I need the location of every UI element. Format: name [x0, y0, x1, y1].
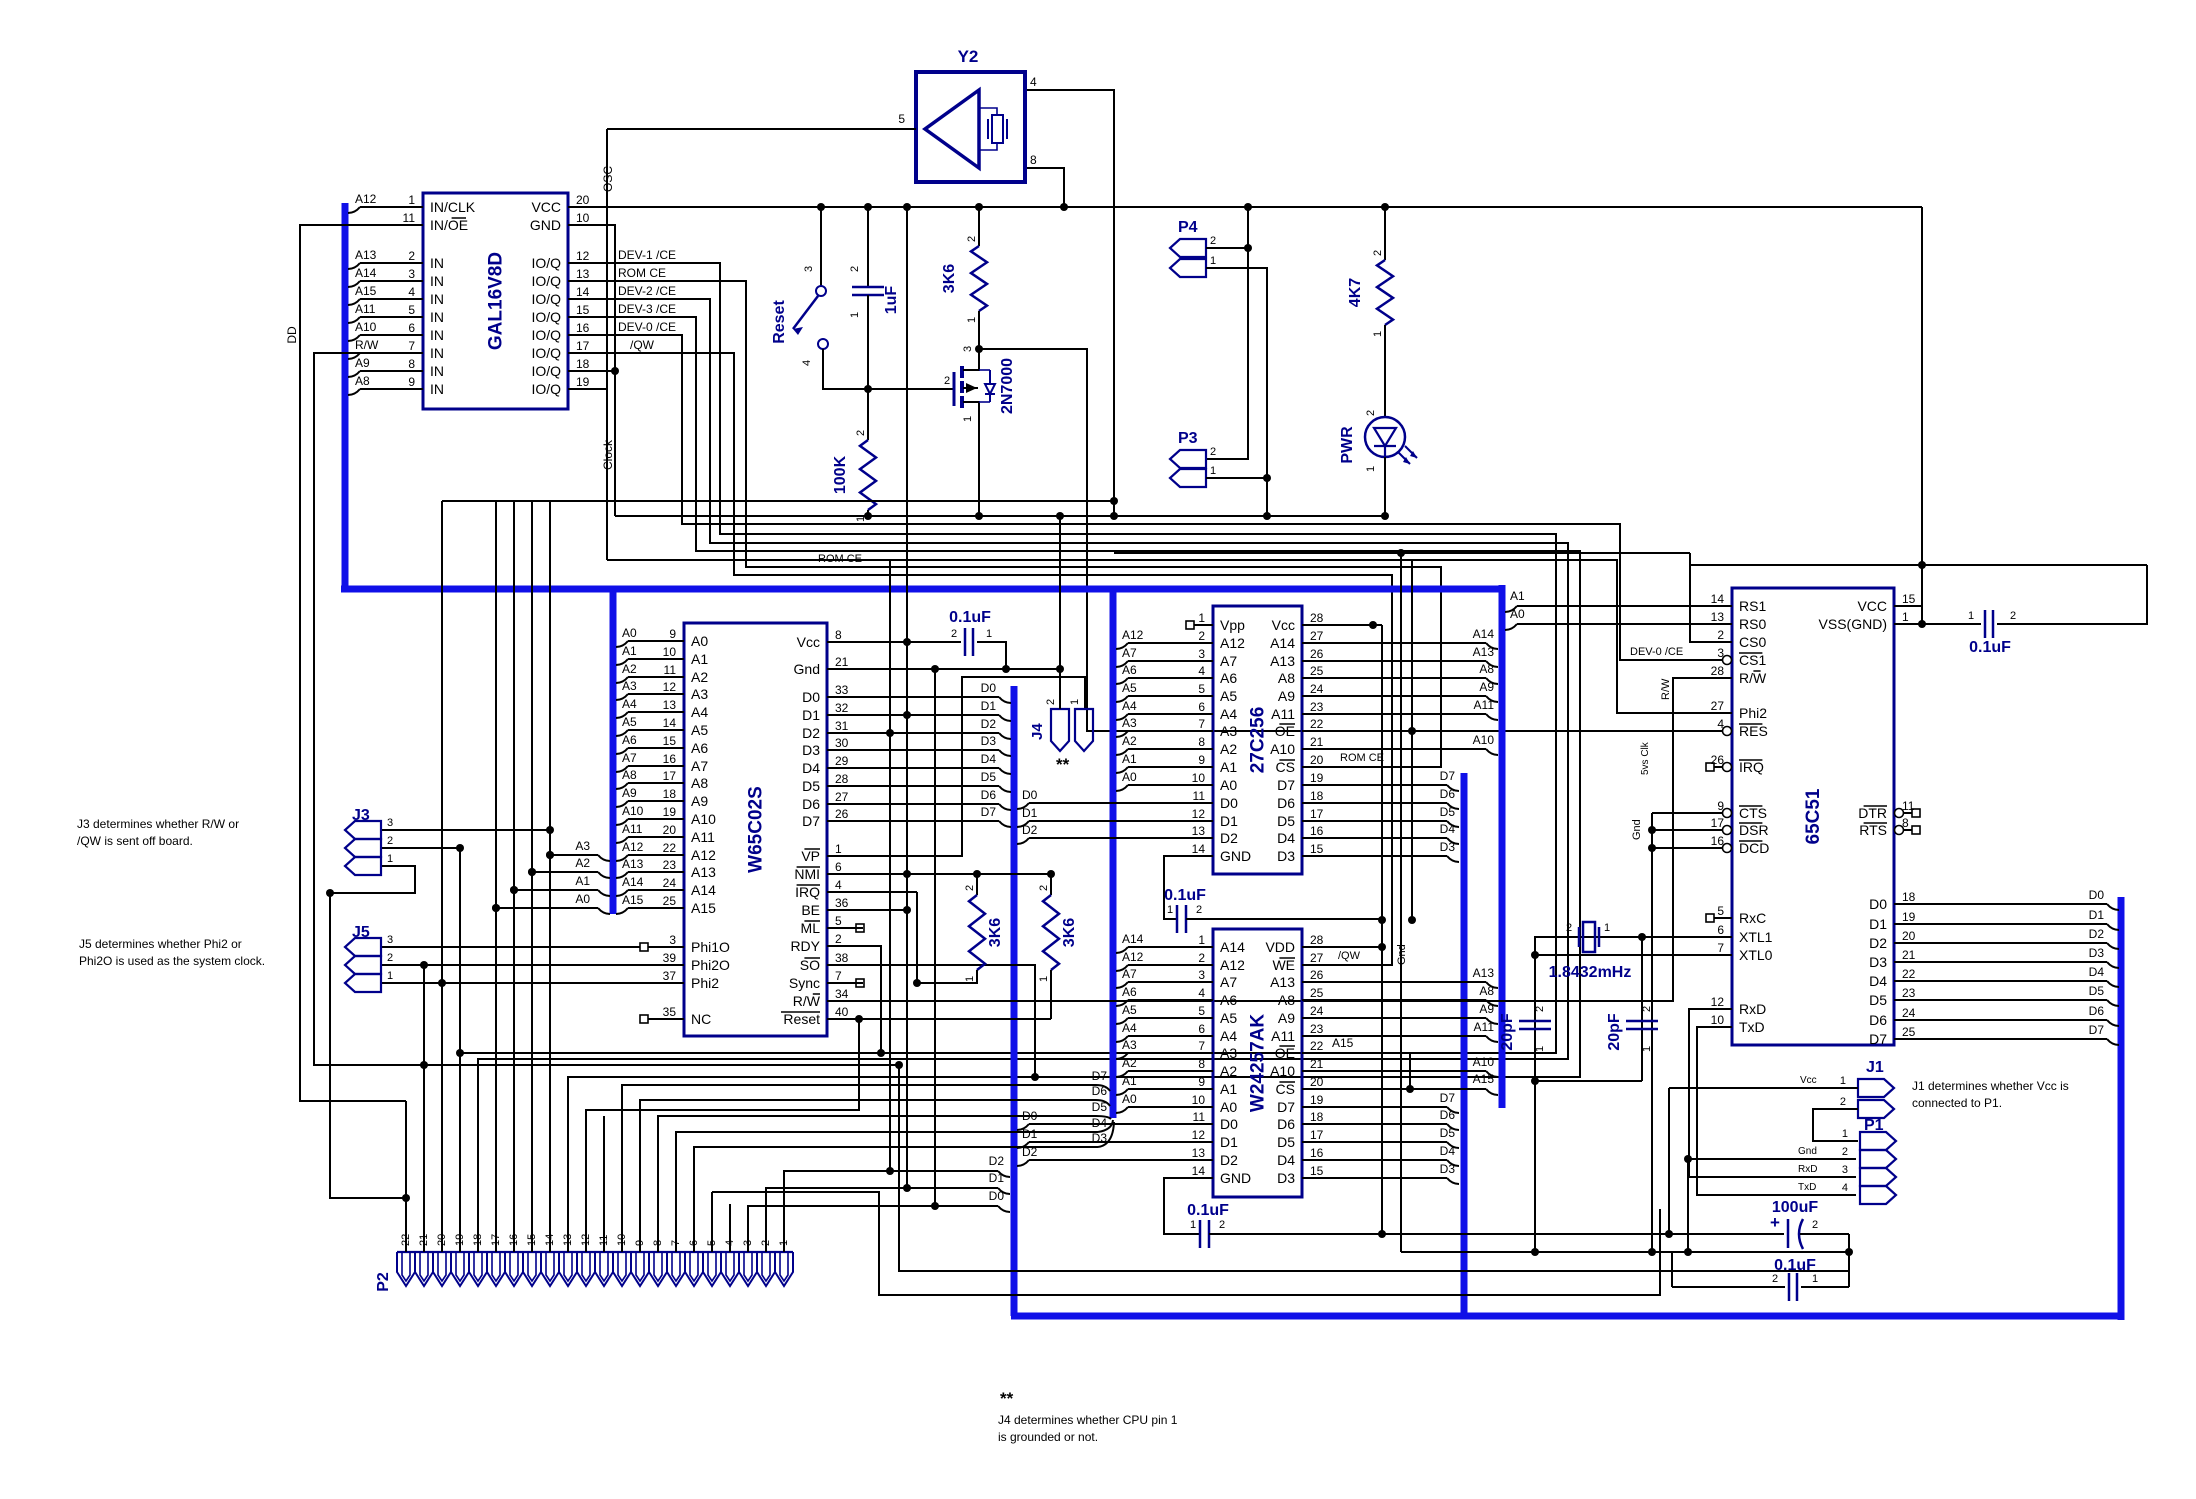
svg-text:100K: 100K	[832, 455, 849, 494]
wire P4 pin2	[1206, 247, 1248, 249]
svg-text:1: 1	[1038, 976, 1050, 982]
svg-text:A8: A8	[1278, 992, 1295, 1008]
P2 pin 11	[595, 1252, 613, 1286]
pin 16 DCD	[1714, 847, 1732, 849]
wire D1 ROM	[1017, 821, 1029, 827]
svg-text:D6: D6	[1440, 787, 1456, 801]
wire A8 ROM right	[1321, 677, 1486, 679]
svg-text:23: 23	[1310, 700, 1324, 714]
wire Clock run to right	[607, 560, 1714, 713]
wire bottom long A	[712, 1192, 1660, 1295]
svg-text:D2: D2	[989, 1154, 1005, 1168]
pin 1 VP	[827, 855, 863, 857]
svg-text:2: 2	[1772, 1273, 1778, 1285]
svg-text:6: 6	[1198, 1022, 1205, 1036]
svg-text:3K6: 3K6	[1061, 918, 1078, 947]
svg-text:A12: A12	[1122, 628, 1144, 642]
wire riser P2 pin7 D4	[676, 1132, 1098, 1252]
svg-text:D3: D3	[1277, 848, 1295, 864]
svg-text:DTR: DTR	[1858, 805, 1887, 821]
svg-text:15: 15	[663, 734, 677, 748]
pin 13 RS0	[1714, 623, 1732, 625]
svg-text:2: 2	[1198, 951, 1205, 965]
svg-text:9: 9	[669, 627, 676, 641]
svg-text:D5: D5	[1869, 992, 1887, 1008]
svg-text:D4: D4	[1277, 830, 1295, 846]
svg-text:11: 11	[1193, 1110, 1206, 1124]
pin 30 D3	[827, 749, 863, 751]
pin 38 SO	[827, 964, 863, 966]
pin 19 IO/Q	[568, 388, 604, 390]
wire A15 to GAL	[348, 299, 360, 305]
pin 6 NMI	[827, 873, 863, 875]
pin 27 D6	[827, 803, 863, 805]
pin 7 A3	[1194, 1052, 1213, 1054]
svg-text:16: 16	[1310, 824, 1324, 838]
capacitor 0.1uF CPU	[845, 641, 961, 643]
pin 3 CS1	[1714, 659, 1732, 661]
RAM VDD wire	[1321, 946, 1382, 948]
pin 25 A8	[1302, 677, 1321, 679]
svg-text:DCD: DCD	[1739, 840, 1769, 856]
svg-text:D6: D6	[1092, 1084, 1108, 1098]
svg-text:ROM CE: ROM CE	[818, 553, 862, 565]
wire A6 ROM	[1116, 678, 1128, 684]
svg-text:D1: D1	[1220, 1134, 1238, 1150]
svg-text:1: 1	[1534, 1046, 1546, 1052]
svg-text:A14: A14	[622, 875, 644, 889]
svg-text:A2: A2	[1122, 734, 1137, 748]
pin 40 Reset	[827, 1018, 863, 1020]
wire P1 pin2 Gnd	[1688, 1158, 1856, 1160]
pin 2 CS0	[1714, 641, 1732, 643]
svg-text:A3: A3	[1220, 1045, 1237, 1061]
pin 18 D6	[1302, 802, 1321, 804]
svg-text:A2: A2	[622, 662, 637, 676]
pin 5 IN	[387, 316, 423, 318]
wire D6 RAM data	[1321, 1123, 1447, 1125]
svg-text:9: 9	[1198, 753, 1205, 767]
pin 18 A9	[648, 800, 684, 802]
svg-text:D7: D7	[1440, 1091, 1456, 1105]
P2 pin 18	[469, 1252, 487, 1286]
svg-text:D7: D7	[1092, 1069, 1108, 1083]
svg-text:17: 17	[1711, 816, 1725, 830]
svg-text:GND: GND	[530, 217, 561, 233]
svg-text:OE: OE	[1275, 1045, 1295, 1061]
svg-text:A13: A13	[355, 248, 377, 262]
wire y501 horizontal	[442, 500, 1114, 502]
wire riser P2 pin15 A2	[531, 866, 533, 1252]
svg-text:6: 6	[1717, 923, 1724, 937]
wire J5 pin1 to Phi2	[382, 982, 648, 984]
pin 12 D1	[1194, 820, 1213, 822]
svg-text:A7: A7	[1122, 967, 1137, 981]
svg-text:21: 21	[1902, 948, 1916, 962]
svg-text:A14: A14	[1220, 939, 1245, 955]
svg-text:22: 22	[1902, 967, 1916, 981]
svg-text:A12: A12	[622, 840, 644, 854]
wire Reset CPU	[845, 1018, 1051, 1020]
pin 5 A5	[1194, 695, 1213, 697]
wire ROM OE	[1321, 730, 1412, 732]
svg-text:D6: D6	[1277, 1116, 1295, 1132]
svg-text:D6: D6	[2089, 1004, 2105, 1018]
switch Reset	[820, 207, 822, 286]
svg-text:2: 2	[1840, 1096, 1846, 1108]
svg-text:16: 16	[1711, 834, 1725, 848]
svg-text:A7: A7	[1220, 974, 1237, 990]
svg-text:A5: A5	[691, 722, 708, 738]
wire VSS 65C51 + capacitor 0.1uF right	[1894, 623, 1981, 625]
svg-text:A11: A11	[1474, 1020, 1495, 1034]
svg-text:A0: A0	[1510, 607, 1525, 621]
wire A12 ROM	[1116, 643, 1128, 649]
wire riser P2 pin18 DEV-2	[477, 1077, 479, 1252]
pin 13 D2	[1194, 1159, 1213, 1161]
svg-text:6: 6	[408, 321, 415, 335]
pin 28 Vcc	[1302, 624, 1321, 626]
wire D7 RAM data	[1321, 1106, 1447, 1108]
IC W65C02S box	[684, 623, 827, 1036]
wire cap right vertical	[1848, 1234, 1850, 1287]
svg-text:A3: A3	[575, 839, 590, 853]
svg-text:20pF: 20pF	[1606, 1013, 1623, 1051]
svg-text:P3: P3	[1178, 430, 1198, 447]
svg-text:1: 1	[387, 970, 393, 982]
svg-text:Phi1O: Phi1O	[691, 939, 730, 955]
svg-text:14: 14	[1192, 1164, 1206, 1178]
svg-text:DEV-2 /CE: DEV-2 /CE	[618, 284, 676, 298]
svg-text:4: 4	[801, 360, 813, 366]
svg-text:/QW: /QW	[630, 338, 655, 352]
svg-text:IO/Q: IO/Q	[531, 309, 561, 325]
wire reset net to RES 65C51	[979, 349, 1714, 731]
svg-text:3: 3	[387, 817, 393, 829]
svg-text:D2: D2	[2089, 927, 2105, 941]
svg-text:27: 27	[1310, 629, 1324, 643]
wire A11 CPU	[616, 837, 628, 843]
svg-text:4: 4	[1842, 1182, 1848, 1194]
svg-text:D4: D4	[1440, 1144, 1456, 1158]
capacitor 1uF	[867, 207, 869, 287]
svg-text:D3: D3	[981, 734, 997, 748]
svg-text:A13: A13	[1270, 653, 1295, 669]
P2 pin 4	[721, 1252, 739, 1286]
svg-text:3K6: 3K6	[987, 918, 1004, 947]
pin 4 A6	[1194, 677, 1213, 679]
wire riser P2 pin10 D7	[622, 1085, 1096, 1252]
wire riser P2 pin11	[603, 1116, 605, 1252]
wire A15 CPU	[616, 908, 628, 914]
svg-text:2: 2	[1038, 885, 1050, 891]
svg-text:27: 27	[835, 790, 849, 804]
pin 39 Phi2O	[648, 964, 684, 966]
wire VCC loop top right	[1690, 564, 2147, 566]
pin 3 Phi1O	[648, 946, 684, 948]
pin 7 A3	[1194, 730, 1213, 732]
svg-text:10: 10	[1192, 771, 1206, 785]
svg-text:19: 19	[1310, 1093, 1324, 1107]
svg-text:OE: OE	[1275, 723, 1295, 739]
svg-text:37: 37	[663, 969, 677, 983]
svg-text:A3: A3	[1122, 716, 1137, 730]
svg-text:A11: A11	[1271, 1028, 1295, 1044]
svg-text:4: 4	[1030, 75, 1037, 89]
P2 pin 12	[577, 1252, 595, 1286]
svg-text:D1: D1	[1022, 806, 1038, 820]
svg-text:16: 16	[663, 752, 677, 766]
pin 3 IN	[387, 280, 423, 282]
capacitor 20pF A	[1519, 1020, 1551, 1023]
IC W24257AK box	[1213, 929, 1302, 1197]
svg-text:A9: A9	[1479, 1002, 1494, 1016]
svg-text:D0: D0	[1220, 795, 1238, 811]
svg-text:CS: CS	[1276, 1081, 1295, 1097]
svg-text:D4: D4	[802, 760, 820, 776]
svg-text:A7: A7	[1220, 653, 1237, 669]
wire A2 ROM	[1116, 749, 1128, 755]
svg-text:Y2: Y2	[958, 47, 979, 66]
svg-text:1: 1	[1167, 904, 1173, 916]
svg-text:IO/Q: IO/Q	[531, 345, 561, 361]
pin 21 A10	[1302, 748, 1321, 750]
pin 16 A7	[648, 765, 684, 767]
svg-text:2: 2	[408, 249, 415, 263]
svg-text:2: 2	[951, 628, 957, 640]
pin 22 A12	[648, 854, 684, 856]
node DD wire from GAL pin11	[300, 225, 406, 1101]
svg-text:D4: D4	[1277, 1152, 1295, 1168]
svg-text:17: 17	[576, 339, 590, 353]
pin 25 A8	[1302, 999, 1321, 1001]
svg-text:W65C02S: W65C02S	[746, 786, 767, 873]
pin 26 IRQ	[1706, 763, 1714, 771]
svg-text:24: 24	[663, 876, 677, 890]
svg-text:A3: A3	[622, 679, 637, 693]
pin 1 VSS(GND)	[1894, 623, 1912, 625]
svg-text:A11: A11	[1271, 706, 1295, 722]
svg-text:10: 10	[1711, 1013, 1725, 1027]
svg-text:A5: A5	[1122, 1003, 1137, 1017]
svg-text:A8: A8	[355, 374, 370, 388]
wire riser P2 pin4	[729, 1204, 731, 1252]
pin 4 IN	[387, 298, 423, 300]
pin 15 A6	[648, 747, 684, 749]
svg-text:D3: D3	[1869, 954, 1887, 970]
pin 7 Sync	[827, 982, 863, 984]
pin 17 IO/Q	[568, 352, 604, 354]
svg-text:10: 10	[576, 211, 590, 225]
svg-text:GND: GND	[1220, 1170, 1251, 1186]
svg-text:D5: D5	[2089, 984, 2105, 998]
P2 pin 17	[487, 1252, 505, 1286]
svg-text:D7: D7	[1869, 1031, 1887, 1047]
svg-text:A15: A15	[1473, 1072, 1495, 1086]
pin 27 A14	[1302, 642, 1321, 644]
pin 5 A5	[1194, 1017, 1213, 1019]
svg-text:A0: A0	[691, 633, 708, 649]
svg-text:D5: D5	[1277, 1134, 1295, 1150]
svg-text:2: 2	[2010, 610, 2016, 622]
svg-text:DEV-3 /CE: DEV-3 /CE	[618, 302, 676, 316]
svg-text:IN: IN	[430, 255, 444, 271]
svg-text:A4: A4	[1220, 1028, 1237, 1044]
svg-text:A0: A0	[1122, 770, 1137, 784]
svg-text:2: 2	[1196, 904, 1202, 916]
wire A9 to GAL	[348, 371, 360, 377]
pin 5 ML	[827, 927, 863, 929]
svg-text:D1: D1	[802, 707, 820, 723]
svg-text:A10: A10	[1473, 733, 1495, 747]
svg-text:D1: D1	[981, 699, 997, 713]
svg-text:A4: A4	[622, 697, 637, 711]
pin 18 D0	[1894, 903, 1912, 905]
wire A13 ROM right	[1321, 660, 1486, 662]
svg-text:D7: D7	[1277, 1099, 1295, 1115]
pin 28 D5	[827, 785, 863, 787]
svg-text:Phi2: Phi2	[1739, 705, 1767, 721]
svg-text:2: 2	[1210, 235, 1216, 247]
svg-text:19: 19	[576, 375, 590, 389]
svg-text:D6: D6	[1869, 1012, 1887, 1028]
pin 23 A11	[1302, 713, 1321, 715]
P2 pin 3	[739, 1252, 757, 1286]
pin 13 A4	[648, 711, 684, 713]
svg-text:A4: A4	[1122, 1021, 1137, 1035]
svg-text:14: 14	[663, 716, 677, 730]
svg-text:3: 3	[1198, 647, 1205, 661]
capacitor 20pF B	[1626, 1020, 1658, 1023]
pin 2 IN	[387, 262, 423, 264]
svg-text:1: 1	[1968, 610, 1974, 622]
wire riser P2 pin17 A0	[495, 901, 497, 1252]
wire P4-P3 vertical	[1206, 207, 1248, 459]
P2 pin 14	[541, 1252, 559, 1286]
svg-text:IN: IN	[430, 309, 444, 325]
svg-text:6: 6	[1198, 700, 1205, 714]
svg-text:7: 7	[1198, 1039, 1205, 1053]
svg-text:R/W: R/W	[1660, 678, 1672, 700]
svg-text:A12: A12	[691, 847, 716, 863]
svg-text:CS0: CS0	[1739, 634, 1766, 650]
svg-text:CS: CS	[1276, 759, 1295, 775]
svg-text:13: 13	[1711, 610, 1725, 624]
svg-text:2: 2	[1365, 410, 1377, 416]
svg-text:D5: D5	[802, 778, 820, 794]
svg-text:A12: A12	[1220, 957, 1245, 973]
wire A3 from P2	[550, 854, 598, 856]
pin 12 D1	[1194, 1141, 1213, 1143]
wire CTS DSR DCD gnd tie	[1652, 812, 1714, 814]
svg-text:RES: RES	[1739, 723, 1768, 739]
svg-text:15: 15	[1310, 1164, 1324, 1178]
svg-text:1: 1	[1365, 466, 1377, 472]
pin 33 D0	[827, 696, 863, 698]
pin 11 D0	[1194, 1123, 1213, 1125]
svg-text:Reset: Reset	[783, 1011, 820, 1027]
wire A7 RAM	[1116, 982, 1128, 988]
svg-text:6: 6	[835, 860, 842, 874]
wire D4 ROM data	[1321, 837, 1447, 839]
svg-text:12: 12	[1711, 995, 1725, 1009]
wire riser P2 pin9 D6	[640, 1100, 1096, 1252]
svg-text:27: 27	[1711, 699, 1725, 713]
svg-text:1: 1	[1210, 465, 1216, 477]
svg-text:+: +	[1770, 1213, 1780, 1232]
svg-text:A5: A5	[1220, 1010, 1237, 1026]
svg-text:32: 32	[835, 701, 849, 715]
wire TxD to P1	[1697, 1027, 1856, 1195]
svg-text:IN: IN	[430, 381, 444, 397]
wire D7 ROM data	[1321, 784, 1447, 786]
svg-text:35: 35	[663, 1005, 677, 1019]
pin 1 Vpp	[1186, 621, 1194, 629]
svg-text:25: 25	[663, 894, 677, 908]
svg-text:1: 1	[1812, 1273, 1818, 1285]
svg-text:1: 1	[1840, 1075, 1846, 1087]
svg-text:Phi2O is used as the system cl: Phi2O is used as the system clock.	[79, 954, 265, 968]
svg-text:18: 18	[663, 787, 677, 801]
svg-text:A6: A6	[1220, 670, 1237, 686]
svg-text:CTS: CTS	[1739, 805, 1767, 821]
pin 24 A9	[1302, 695, 1321, 697]
pin 20 D2	[1894, 942, 1912, 944]
wire A0 RAM	[1116, 1107, 1128, 1113]
svg-text:Gnd: Gnd	[794, 661, 820, 677]
pin 20 A11	[648, 836, 684, 838]
pin 19 A10	[648, 818, 684, 820]
svg-text:1: 1	[1842, 1128, 1848, 1140]
wire riser P2 pin5	[711, 1192, 713, 1252]
bus data vertical far right	[2118, 897, 2125, 1320]
svg-text:D2: D2	[1220, 1152, 1238, 1168]
svg-text:7: 7	[835, 969, 842, 983]
svg-text:A3: A3	[1220, 723, 1237, 739]
svg-text:3: 3	[1198, 968, 1205, 982]
svg-text:RS0: RS0	[1739, 616, 1766, 632]
wire 20pF gnd tie	[1535, 1080, 1642, 1082]
svg-text:5vs Clk: 5vs Clk	[1640, 741, 1651, 775]
svg-text:TxD: TxD	[1739, 1019, 1765, 1035]
wire IRQ	[845, 891, 917, 893]
pin 10 A0	[1194, 1106, 1213, 1108]
svg-text:D0: D0	[802, 689, 820, 705]
wire riser P2 pin13 DEV-3	[567, 1089, 569, 1252]
svg-text:**: **	[1056, 755, 1070, 774]
svg-text:A12: A12	[1220, 635, 1245, 651]
ground rail	[615, 515, 1385, 517]
wire D0 RAM	[1017, 1124, 1029, 1130]
svg-text:21: 21	[1310, 1057, 1324, 1071]
svg-text:D6: D6	[802, 796, 820, 812]
wire A8 to GAL	[348, 389, 360, 395]
svg-text:17: 17	[1310, 807, 1324, 821]
svg-text:A10: A10	[355, 320, 377, 334]
svg-text:25: 25	[1310, 986, 1324, 1000]
svg-text:IN: IN	[430, 273, 444, 289]
pin 14 GND	[1194, 855, 1213, 857]
wire Y2 pin8 to rail	[1025, 168, 1064, 207]
pin 1 A14	[1194, 946, 1213, 948]
svg-text:A15: A15	[355, 284, 377, 298]
svg-text:A14: A14	[1270, 635, 1295, 651]
pin 9 A0	[648, 640, 684, 642]
svg-text:A5: A5	[1122, 681, 1137, 695]
svg-text:A9: A9	[691, 793, 708, 809]
svg-text:1: 1	[835, 842, 842, 856]
pin 11 DTR	[1912, 809, 1920, 817]
